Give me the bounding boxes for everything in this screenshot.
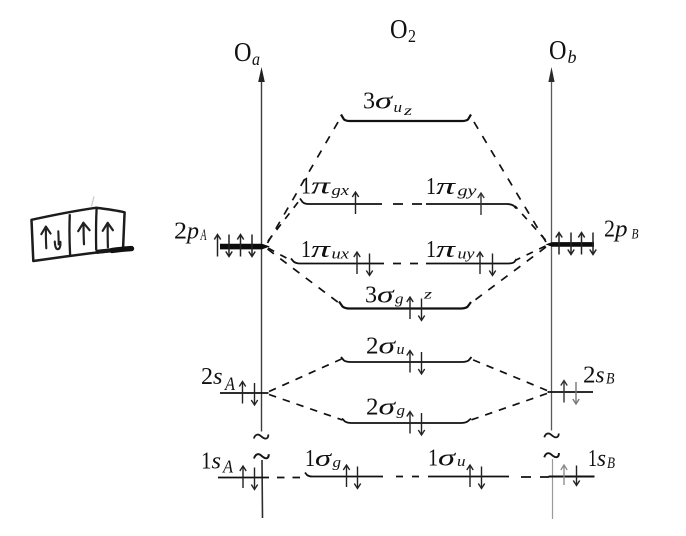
- level 2pA thick line: [220, 244, 270, 250]
- svg-text:1πux: 1πux: [301, 237, 349, 263]
- svg-text:2sA: 2sA: [201, 364, 236, 395]
- electron arrows up-down 1sigma_u: [467, 465, 485, 489]
- electron arrow up 1pi_gx: [352, 192, 358, 214]
- dash-dot between 1pi_gx and 1pi_gy: [393, 203, 423, 205]
- svg-text:1πgx: 1πgx: [301, 174, 349, 200]
- level 1sA line: [218, 477, 269, 479]
- svg-text:2σg: 2σg: [366, 395, 406, 421]
- axis break tilde upper right: [544, 433, 558, 437]
- sketch box outline: [32, 208, 125, 261]
- level 1pi_gy line: [426, 204, 516, 209]
- electron arrows up-down 1pi_uy: [477, 252, 496, 276]
- dashed connector 2pA to 1pi_gx: [268, 201, 299, 241]
- electron arrows up-down 2sA: [239, 382, 257, 406]
- svg-text:z: z: [423, 288, 433, 303]
- electron arrows 2pA up-down-up-down: [214, 235, 255, 257]
- dashed connector 2sB to 2sigma_g: [471, 394, 547, 421]
- svg-text:Oa: Oa: [234, 37, 260, 69]
- svg-text:1sA: 1sA: [201, 449, 233, 477]
- dashed connector 2pB to 1pi_gy: [515, 206, 546, 240]
- dashed connector 2pA to 3sigma_g: [268, 249, 340, 303]
- sketch box divider 2: [95, 208, 98, 250]
- dashed connector 2pB to 1pi_uy: [516, 246, 546, 260]
- dashed connector 1sigma_u to 1sB: [521, 476, 549, 478]
- sketch electron arrow up cell3: [103, 223, 113, 247]
- axis Oa vertical line: [258, 67, 265, 518]
- svg-text:2sB: 2sB: [583, 363, 615, 389]
- dashed connector 2pA to 1pi_ux: [268, 248, 290, 260]
- dashed connector 2sA to 2sigma_g: [269, 395, 343, 421]
- electron arrows up-down 3sigma_g: [407, 297, 425, 321]
- dashed connector 1sA to 1sigma_g: [277, 477, 301, 479]
- electron arrows up-down 2sB: [561, 381, 579, 405]
- sketch box bottom smudge: [98, 248, 131, 252]
- axis break tilde lower right: [544, 453, 559, 457]
- level 2sigma_u line: [341, 357, 472, 362]
- level 1pi_gx line: [300, 199, 382, 205]
- svg-text:3σg: 3σg: [365, 283, 404, 309]
- dashed connector 2sB to 2sigma_u: [471, 359, 547, 391]
- dash-dot between 1pi_ux and 1pi_uy: [393, 263, 420, 265]
- dashed connector 2pA to 3sigma_u_z: [268, 117, 342, 243]
- sketch electron arrow down cell1 with curled head: [55, 231, 61, 249]
- level 1pi_uy line: [426, 259, 517, 264]
- axis break tilde lower left: [254, 454, 269, 458]
- electron arrows up-down 1sA: [240, 466, 258, 490]
- level 3sigma_u_z line: [341, 115, 471, 122]
- svg-text:O2: O2: [390, 14, 416, 46]
- electron arrows up-down 2sigma_g: [407, 412, 425, 436]
- svg-text:1πgy: 1πgy: [426, 174, 477, 200]
- electron arrows 2pB up-down-up-down: [556, 233, 596, 255]
- svg-text:3σuz: 3σuz: [363, 89, 413, 119]
- svg-text:1πuy: 1πuy: [426, 237, 475, 263]
- level 2sA line: [220, 392, 269, 394]
- level 2sB line: [548, 391, 594, 393]
- level 1sigma_u line: [428, 476, 509, 478]
- level 1sB line: [549, 476, 595, 478]
- svg-text:2pB: 2pB: [604, 217, 639, 243]
- svg-text:2σu: 2σu: [366, 334, 405, 360]
- svg-text:1σu: 1σu: [428, 446, 466, 472]
- axis break tilde upper left: [254, 434, 269, 438]
- level 1sigma_g line: [305, 473, 383, 477]
- dashed connector 1sigma_g to 1sigma_u: [396, 476, 420, 478]
- sketch electron arrow up cell2: [78, 223, 89, 245]
- svg-text:1σg: 1σg: [305, 446, 342, 472]
- sketch pencil stray mark above box: [92, 197, 95, 207]
- dashed connector 2pB to 3sigma_u_z: [471, 117, 546, 242]
- dashed connector 2sA to 2sigma_u: [269, 359, 342, 392]
- svg-text:2pA: 2pA: [174, 218, 207, 244]
- sketch electron arrow up cell1: [41, 227, 50, 249]
- electron arrows up-down 1pi_ux: [354, 252, 373, 276]
- svg-text:1sB: 1sB: [588, 446, 615, 472]
- dashed connector 2pB to 3sigma_g: [471, 247, 546, 303]
- sketch box divider 1: [68, 214, 71, 257]
- svg-text:Ob: Ob: [549, 35, 577, 67]
- level 3sigma_g line: [339, 302, 471, 309]
- level 2pB thick line: [546, 242, 595, 247]
- electron arrows up-down 1sigma_g: [343, 465, 360, 489]
- electron arrows up-down 1sB: [561, 465, 580, 486]
- level 2sigma_g line: [342, 419, 471, 424]
- electron arrows up-down 2sigma_u: [407, 351, 425, 375]
- axis Ob vertical line: [548, 67, 554, 519]
- electron arrow up 1pi_gy: [478, 193, 484, 215]
- level 1pi_ux line: [291, 259, 384, 264]
